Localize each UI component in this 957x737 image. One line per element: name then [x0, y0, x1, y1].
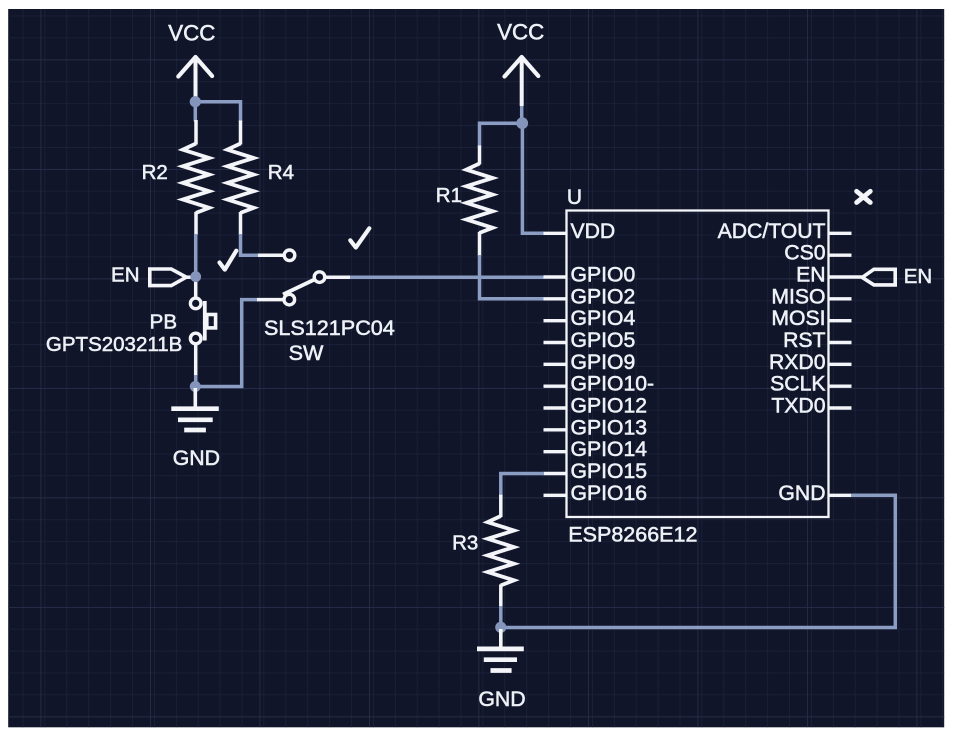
- svg-text:R1: R1: [436, 184, 462, 207]
- svg-text:MISO: MISO: [771, 285, 825, 308]
- svg-text:SCLK: SCLK: [770, 373, 825, 396]
- svg-text:MOSI: MOSI: [771, 307, 825, 330]
- svg-text:GPIO5: GPIO5: [571, 329, 636, 352]
- net flag EN (right): [852, 265, 933, 288]
- wire PB bottom to ground junction: [194, 344, 198, 376]
- wire VCC2 node branches: [480, 106, 545, 233]
- svg-text:RST: RST: [783, 329, 825, 352]
- pin GPIO13: [544, 416, 648, 439]
- pin GPIO9: [544, 351, 636, 374]
- wire white lead lower throw: [257, 298, 283, 302]
- pin VDD: [544, 220, 616, 243]
- svg-text:R3: R3: [452, 531, 478, 554]
- pin TXD0: [771, 395, 851, 418]
- wire IC GND pin to ground junction: [501, 495, 895, 627]
- checkmark annotation near R4: [220, 251, 237, 270]
- svg-text:GPIO10-: GPIO10-: [571, 373, 655, 396]
- power symbol VCC (right): [497, 19, 544, 106]
- op IC U ESP8266E12 box: [567, 186, 829, 546]
- junction EN node: [190, 271, 201, 282]
- pin MISO: [771, 285, 851, 308]
- pin ADC/TOUT: [718, 220, 852, 243]
- junction GND1 node: [190, 381, 201, 392]
- svg-text:GPIO12: GPIO12: [571, 395, 648, 418]
- svg-text:GPIO4: GPIO4: [571, 307, 636, 330]
- resistor R2: [142, 120, 210, 235]
- svg-text:ESP8266E12: ESP8266E12: [568, 522, 697, 546]
- svg-text:TXD0: TXD0: [771, 395, 825, 418]
- svg-text:U: U: [567, 186, 582, 209]
- svg-text:GPIO14: GPIO14: [571, 438, 648, 461]
- svg-text:GPIO15: GPIO15: [571, 460, 648, 483]
- svg-text:GND: GND: [478, 687, 525, 711]
- pin MOSI: [771, 307, 851, 330]
- checkmark annotation near switch: [350, 228, 369, 247]
- svg-text:VCC: VCC: [168, 21, 215, 46]
- junction VCC2 node: [516, 117, 528, 129]
- resistor R1: [436, 146, 493, 257]
- net flag EN (left): [111, 264, 196, 287]
- svg-text:EN: EN: [796, 264, 825, 287]
- svg-text:GND: GND: [778, 482, 825, 505]
- pin SCLK: [770, 373, 851, 396]
- wire GPIO15 to R3: [501, 474, 544, 497]
- svg-text:PB: PB: [150, 311, 177, 334]
- junction GND2 node: [495, 622, 506, 633]
- svg-text:GND: GND: [173, 446, 220, 470]
- pin GPIO12: [544, 395, 648, 418]
- ground symbol GND (right): [477, 629, 526, 711]
- wire R4 bottom to switch upper throw: [241, 234, 260, 255]
- svg-text:GPIO16: GPIO16: [571, 482, 648, 505]
- svg-text:GPIO2: GPIO2: [571, 285, 636, 308]
- power symbol VCC (left): [168, 21, 215, 102]
- wire VCC1 node to R2 and R4 branch: [195, 102, 240, 122]
- wire R2 bottom to EN node: [194, 234, 198, 273]
- push button PB GPTS203211B: [46, 298, 216, 356]
- pin GND: [778, 482, 851, 505]
- pin GPIO15: [544, 460, 648, 483]
- resistor R3: [452, 495, 514, 607]
- pin GPIO2: [544, 285, 636, 308]
- cross annotation (X): [857, 191, 871, 202]
- pin GPIO4: [544, 307, 636, 330]
- switch SW SLS121PC04: [264, 250, 395, 365]
- wire R1 bottom to GPIO2: [480, 255, 545, 299]
- pin CS0: [784, 242, 851, 265]
- svg-text:VDD: VDD: [571, 220, 616, 243]
- svg-text:R4: R4: [268, 161, 294, 184]
- svg-text:SLS121PC04: SLS121PC04: [264, 315, 395, 340]
- wire switch lower throw to ground junction: [196, 300, 258, 387]
- wire white lead to upper throw contact: [258, 254, 284, 258]
- svg-text:R2: R2: [142, 161, 168, 184]
- svg-text:RXD0: RXD0: [769, 351, 826, 374]
- pin EN: [796, 264, 851, 287]
- svg-text:VCC: VCC: [497, 19, 544, 44]
- junction VCC1 node: [190, 96, 201, 107]
- svg-text:SW: SW: [289, 340, 324, 365]
- svg-text:EN: EN: [904, 265, 932, 288]
- resistor R4: [227, 121, 294, 236]
- svg-text:CS0: CS0: [784, 242, 825, 265]
- svg-text:GPIO9: GPIO9: [571, 351, 636, 374]
- pin RST: [783, 329, 851, 352]
- svg-text:GPTS203211B: GPTS203211B: [46, 333, 182, 356]
- svg-text:GPIO13: GPIO13: [571, 416, 648, 439]
- pin GPIO0: [544, 264, 636, 287]
- pin GPIO5: [544, 329, 636, 352]
- wire EN node to push button: [194, 277, 198, 299]
- pin GPIO14: [544, 438, 648, 461]
- pin GPIO16: [544, 482, 648, 505]
- pin RXD0: [769, 351, 852, 374]
- pin GPIO10-: [544, 373, 655, 396]
- ground symbol GND (left): [171, 388, 220, 470]
- svg-text:GPIO0: GPIO0: [571, 264, 636, 287]
- svg-text:ADC/TOUT: ADC/TOUT: [718, 220, 826, 243]
- wire R3 bottom to ground junction: [499, 606, 503, 628]
- wire switch common to GPIO0: [350, 275, 544, 279]
- svg-text:EN: EN: [111, 264, 139, 287]
